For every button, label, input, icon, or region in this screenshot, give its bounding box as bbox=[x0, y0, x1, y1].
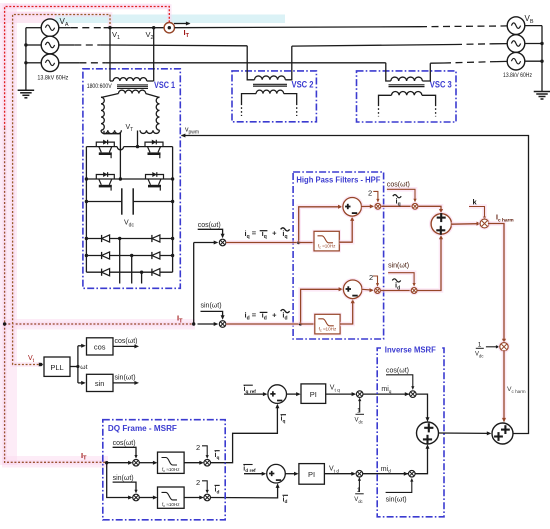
svg-text:sin: sin bbox=[95, 379, 105, 388]
svg-text:cos(ωt): cos(ωt) bbox=[198, 222, 221, 229]
svg-text:cos(ωt): cos(ωt) bbox=[113, 440, 136, 447]
svg-text:sin(ωt): sin(ωt) bbox=[115, 375, 136, 382]
svg-text:cos(ωt): cos(ωt) bbox=[115, 338, 138, 345]
svg-text:=: = bbox=[252, 310, 257, 319]
svg-text:Vdc: Vdc bbox=[475, 352, 483, 359]
svg-text:PI: PI bbox=[308, 470, 315, 479]
svg-text:PI: PI bbox=[310, 390, 317, 399]
svg-text:sin(ωt): sin(ωt) bbox=[386, 497, 407, 504]
svg-text:VSC 1: VSC 1 bbox=[154, 80, 175, 90]
svg-text:2: 2 bbox=[369, 273, 373, 282]
svg-text:1: 1 bbox=[357, 408, 361, 415]
svg-text:13.8kV 60Hz: 13.8kV 60Hz bbox=[37, 74, 68, 81]
svg-text:cos: cos bbox=[94, 342, 106, 351]
svg-text:13.8kV 60Hz: 13.8kV 60Hz bbox=[503, 72, 532, 79]
svg-text:=: = bbox=[252, 229, 257, 238]
svg-text:2: 2 bbox=[196, 443, 200, 452]
svg-text:PLL: PLL bbox=[50, 363, 63, 372]
svg-text:2: 2 bbox=[368, 189, 372, 198]
svg-text:+: + bbox=[272, 229, 277, 238]
svg-text:2: 2 bbox=[196, 478, 200, 487]
svg-text:1: 1 bbox=[357, 487, 361, 494]
svg-text:DQ Frame - MSRF: DQ Frame - MSRF bbox=[108, 424, 177, 433]
svg-text:ωt: ωt bbox=[80, 364, 87, 371]
svg-text:sin(ωt): sin(ωt) bbox=[113, 475, 134, 482]
svg-text:sin(ωt): sin(ωt) bbox=[201, 303, 222, 310]
svg-text:Vdc: Vdc bbox=[354, 497, 362, 504]
svg-text:VSC 3: VSC 3 bbox=[430, 79, 452, 89]
svg-text:sin(ωt): sin(ωt) bbox=[388, 262, 409, 269]
svg-text:High Pass Filters - HPF: High Pass Filters - HPF bbox=[296, 175, 380, 184]
svg-text:Inverse MSRF: Inverse MSRF bbox=[385, 346, 436, 355]
svg-text:1800:600V: 1800:600V bbox=[87, 84, 112, 90]
svg-text:Vdc: Vdc bbox=[355, 418, 363, 425]
svg-text:VSC 2: VSC 2 bbox=[292, 79, 314, 89]
svg-text:cos(ωt): cos(ωt) bbox=[386, 368, 409, 375]
svg-text:1: 1 bbox=[478, 342, 482, 349]
svg-text:+: + bbox=[272, 310, 277, 319]
